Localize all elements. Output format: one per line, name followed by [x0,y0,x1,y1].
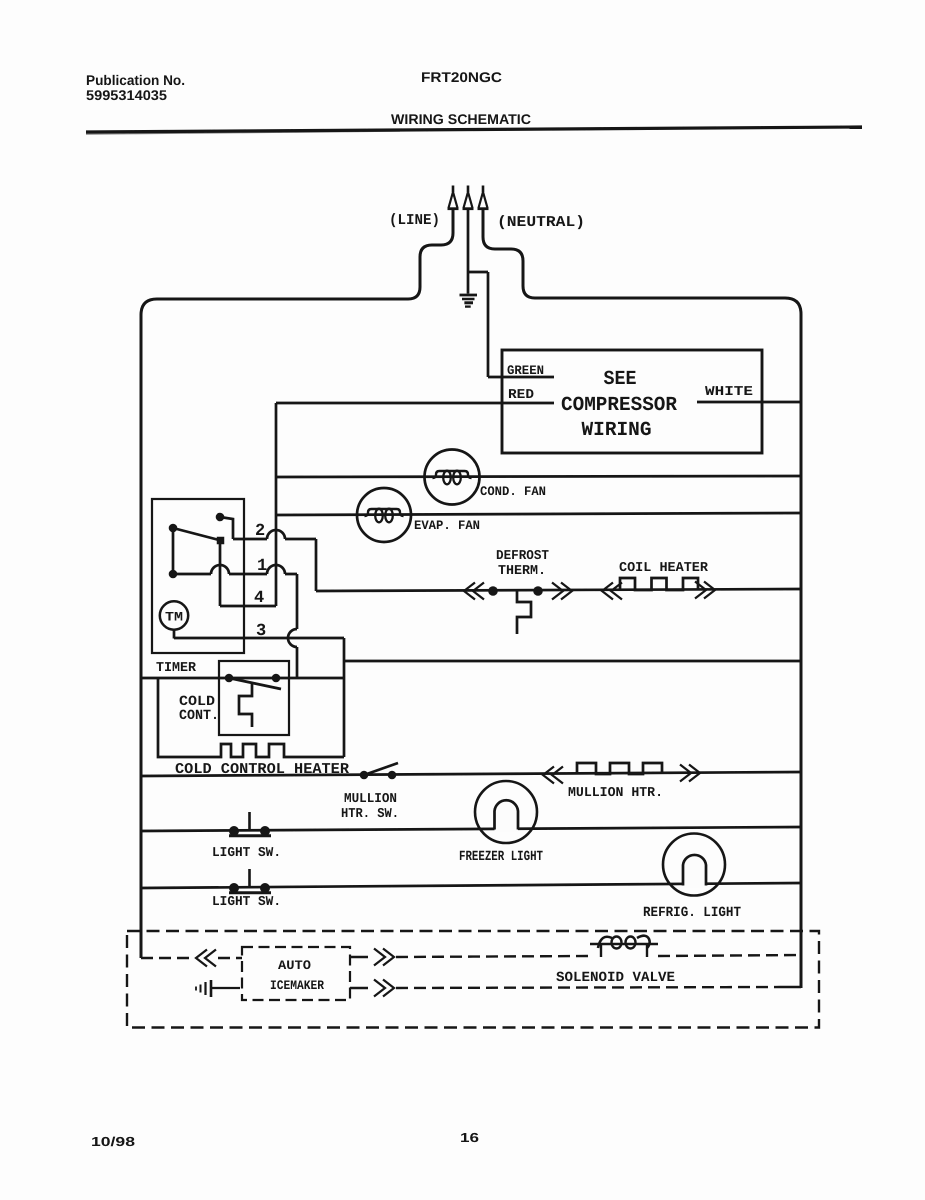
svg-text:TM: TM [165,610,183,625]
svg-text:LIGHT SW.: LIGHT SW. [212,846,281,861]
svg-text:FREEZER LIGHT: FREEZER LIGHT [459,849,543,865]
svg-text:WHITE: WHITE [705,385,753,400]
svg-text:1: 1 [257,557,267,576]
svg-text:ICEMAKER: ICEMAKER [270,978,324,993]
svg-text:COND. FAN: COND. FAN [480,484,546,499]
svg-text:MULLION: MULLION [344,792,397,807]
svg-text:DEFROST: DEFROST [496,549,549,564]
svg-text:COIL HEATER: COIL HEATER [619,561,709,576]
svg-text:(LINE): (LINE) [389,212,440,229]
svg-text:SOLENOID VALVE: SOLENOID VALVE [556,970,675,986]
svg-text:SEE: SEE [604,368,637,391]
svg-text:(NEUTRAL): (NEUTRAL) [497,214,585,231]
svg-text:HTR. SW.: HTR. SW. [341,807,399,822]
svg-text:10/98: 10/98 [91,1134,135,1149]
svg-text:CONT.: CONT. [179,708,219,724]
svg-text:COMPRESSOR: COMPRESSOR [561,394,677,417]
svg-text:16: 16 [460,1130,479,1145]
svg-text:2: 2 [255,522,265,541]
svg-text:5995314035: 5995314035 [86,87,167,103]
svg-text:LIGHT SW.: LIGHT SW. [212,895,281,910]
svg-text:MULLION HTR.: MULLION HTR. [568,786,663,801]
svg-text:WIRING: WIRING [582,419,652,442]
svg-text:WIRING SCHEMATIC: WIRING SCHEMATIC [391,111,531,127]
svg-text:RED: RED [508,388,534,403]
svg-text:Publication No.: Publication No. [86,72,185,88]
svg-text:EVAP. FAN: EVAP. FAN [414,518,480,533]
svg-text:AUTO: AUTO [278,958,311,973]
svg-text:TIMER: TIMER [156,661,197,676]
svg-text:THERM.: THERM. [498,564,546,579]
svg-text:FRT20NGC: FRT20NGC [421,69,502,85]
svg-text:REFRIG. LIGHT: REFRIG. LIGHT [643,905,741,921]
